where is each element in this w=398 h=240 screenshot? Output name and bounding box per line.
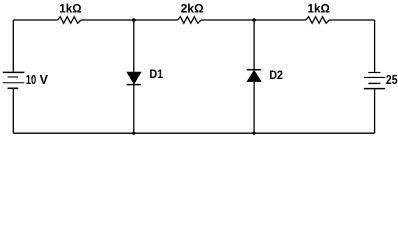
wire top rail segment: left corner to R1 xyxy=(13,19,57,21)
node D junction dot (bottom, D2 branch) xyxy=(253,132,256,135)
wire D1 branch upper (node A to diode) xyxy=(133,20,135,72)
node C junction dot (bottom, D1 branch) xyxy=(132,132,135,135)
wire left vertical (top corner to battery V1) xyxy=(12,20,14,72)
svg-text:2kΩ: 2kΩ xyxy=(181,1,204,15)
wire D2 branch upper (node B to diode) xyxy=(253,20,255,70)
battery V1 plates xyxy=(3,72,25,88)
svg-text:25: 25 xyxy=(386,73,398,87)
label D1 xyxy=(149,67,163,81)
value label 25 (V2) xyxy=(386,73,398,87)
wire top rail segment: R1 to node A xyxy=(81,19,178,21)
wire D1 branch lower (diode to bottom rail) xyxy=(133,85,135,134)
resistor R1 zigzag xyxy=(58,17,81,24)
svg-text:D2: D2 xyxy=(269,68,283,82)
svg-text:1kΩ: 1kΩ xyxy=(59,1,81,15)
wire left vertical (battery V1 to bottom corner) xyxy=(12,89,14,133)
wire right vertical (battery V2 to bottom corner) xyxy=(374,89,376,133)
value label 2kΩ (R2) xyxy=(181,1,204,15)
resistor R2 zigzag xyxy=(178,17,201,24)
resistor R3 zigzag xyxy=(306,17,329,24)
wire right vertical (top corner to battery V2) xyxy=(374,20,376,72)
value label 1kΩ (R1) xyxy=(59,1,81,15)
node B junction dot (top, D2 branch) xyxy=(252,18,256,22)
svg-text:1kΩ: 1kΩ xyxy=(308,1,331,15)
wire top rail segment: R3 to right corner xyxy=(329,19,374,21)
wire bottom rail xyxy=(13,132,374,134)
wire D2 branch lower (diode to bottom rail) xyxy=(253,82,255,134)
svg-text:D1: D1 xyxy=(149,67,163,81)
wire top rail segment: node B to R3 xyxy=(201,19,306,21)
diode D2 (cathode up) xyxy=(247,70,261,82)
value label 10 V (V1) xyxy=(26,73,49,87)
svg-text:10 V: 10 V xyxy=(26,73,49,87)
diode D1 (cathode down) xyxy=(127,72,141,84)
node A junction dot (top, D1 branch) xyxy=(132,18,136,22)
battery V2 plates xyxy=(364,73,385,89)
label D2 xyxy=(269,68,283,82)
value label 1kΩ (R3) xyxy=(308,1,331,15)
